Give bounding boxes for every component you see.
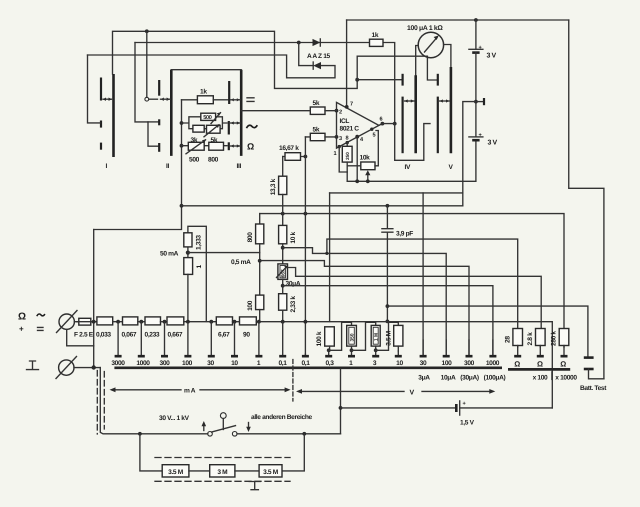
svg-text:2: 2: [339, 110, 342, 116]
switch contact circles: [208, 432, 213, 437]
wire pin4 column: [356, 137, 358, 182]
wire batt-test feed: [387, 306, 588, 356]
wire 5k pin3: [305, 136, 336, 138]
shunt chain column 93.7: [93, 230, 95, 368]
svg-text:Ω: Ω: [18, 312, 26, 323]
button: [220, 413, 226, 419]
resistor 90: [240, 317, 257, 325]
switch V contact bar bottom: [437, 97, 439, 154]
node 387 col top: [386, 204, 390, 208]
svg-text:500: 500: [203, 115, 212, 121]
resistor 3M hv: [210, 465, 235, 477]
svg-text:10 k: 10 k: [290, 231, 297, 243]
resistor 5k non-inverting: [310, 133, 325, 140]
node battery mid: [474, 100, 478, 104]
wire 100 bottom: [259, 310, 261, 322]
wire pin7 column: [346, 20, 348, 106]
bus ohm thick: [508, 368, 570, 371]
battery 1.5V: [455, 404, 458, 412]
wire 1k row left: [182, 99, 198, 101]
wire 250 bottom to rail: [346, 162, 348, 181]
svg-text:280 k: 280 k: [550, 331, 557, 346]
switch II contact bar top: [158, 80, 160, 96]
diode D2 AAZ15: [313, 62, 321, 69]
svg-text:IV: IV: [405, 164, 411, 171]
switch V rotor bar: [450, 67, 453, 153]
resistor 2.33k: [279, 294, 287, 311]
svg-text:0,1: 0,1: [278, 360, 287, 367]
resistor 1ohm: [184, 258, 193, 275]
svg-text:6: 6: [380, 117, 383, 123]
svg-text:30μA: 30μA: [286, 281, 301, 288]
resistor 13.3k: [279, 176, 287, 194]
wire right edge drop: [569, 20, 604, 379]
switch II rotor: [170, 70, 173, 156]
wire 1333 loop: [188, 226, 206, 321]
arrows AC row: [231, 122, 240, 124]
dashed mA-V divider: [292, 360, 294, 402]
node rail wiper: [366, 179, 370, 183]
svg-text:500: 500: [189, 157, 200, 164]
switch I contact 1: [100, 78, 102, 101]
node 0.5mA: [258, 259, 262, 263]
battery 3V lower: [469, 136, 483, 138]
wire bus3 AC path: [88, 55, 336, 78]
svg-text:A A Z 15: A A Z 15: [307, 53, 331, 60]
wire 10k right to pin5: [375, 131, 378, 166]
switch I contact 3: [100, 143, 102, 150]
wire column 181.5: [94, 100, 182, 230]
wire bus2 diode row: [135, 43, 395, 124]
label ~: [247, 125, 258, 128]
pot 500 AC: [201, 113, 216, 120]
node diode junction: [297, 41, 301, 45]
resistor 280k: [559, 329, 569, 346]
svg-text:3: 3: [339, 136, 342, 142]
wire 0.5mA jog to 2.8k: [260, 261, 469, 355]
node rail 13k3: [281, 212, 285, 216]
AC trim network wires: [182, 117, 228, 129]
pin 3: [335, 135, 339, 139]
meter 100uA 1kOhm: [418, 32, 443, 57]
svg-text:16,67 k: 16,67 k: [279, 145, 299, 152]
wire output U-loop: [379, 124, 430, 161]
wire 16k67 row: [283, 156, 306, 158]
switch V mid contact: [476, 101, 483, 103]
dashed box hv chain: [155, 458, 290, 482]
wire 50mA row: [188, 252, 260, 254]
svg-text:50 mA: 50 mA: [160, 251, 179, 258]
svg-text:7: 7: [350, 102, 353, 108]
rail V-: [347, 141, 476, 182]
wire col 305 top: [304, 137, 306, 355]
svg-text:800: 800: [247, 232, 254, 243]
svg-text:3.5 M: 3.5 M: [385, 330, 392, 346]
svg-text:3000: 3000: [111, 360, 125, 367]
resistor 3k AC: [193, 125, 204, 132]
svg-text:100 μA 1 kΩ: 100 μA 1 kΩ: [407, 25, 443, 32]
switch II wiper arrows: [161, 98, 171, 101]
svg-text:100 k: 100 k: [316, 331, 323, 346]
svg-text:8021 C: 8021 C: [340, 126, 360, 133]
capacitor 3.9pF: [382, 229, 393, 233]
pin 6: [381, 122, 385, 126]
svg-text:300: 300: [464, 360, 475, 367]
node 30uA: [281, 284, 285, 288]
resistor 0.667: [167, 317, 184, 325]
svg-text:13,3 k: 13,3 k: [270, 178, 277, 195]
svg-text:100: 100: [182, 360, 193, 367]
svg-text:III: III: [237, 163, 242, 170]
resistor 10k vertical: [279, 225, 287, 243]
wire 13k3 bottom: [282, 195, 284, 226]
ground jack: [59, 360, 74, 375]
svg-text:Batt. Test: Batt. Test: [580, 385, 607, 392]
wire down to HV switch: [100, 368, 140, 434]
wire 30uA row to cap1000: [283, 286, 493, 355]
svg-text:5k: 5k: [313, 127, 320, 134]
svg-text:3μA: 3μA: [418, 375, 430, 382]
fuse F2.5E: [74, 321, 78, 323]
svg-text:Ω: Ω: [247, 142, 254, 152]
svg-text:Ω: Ω: [537, 360, 543, 369]
node 50mA: [186, 251, 190, 255]
wire 5k pin2: [241, 110, 336, 112]
svg-text:10μA: 10μA: [441, 375, 456, 382]
svg-text:100: 100: [442, 360, 453, 367]
resistor 100 vertical: [256, 295, 264, 310]
contact bar DC row: [228, 81, 230, 104]
svg-text:2,33 k: 2,33 k: [290, 296, 297, 313]
wire feedback node: [355, 78, 359, 82]
wire 10k left: [347, 165, 361, 167]
svg-text:1k: 1k: [372, 32, 379, 39]
pin 8: [346, 141, 349, 144]
bus labels mA: [111, 360, 566, 369]
wire uA30 column: [422, 193, 424, 355]
resistor 16.67k: [285, 153, 301, 161]
node mA feed: [180, 204, 184, 208]
svg-text:0,5 mA: 0,5 mA: [231, 259, 251, 266]
resistor 1.333: [184, 233, 192, 247]
svg-text:alle anderen Bereiche: alle anderen Bereiche: [251, 414, 313, 421]
svg-text:x 100: x 100: [533, 375, 548, 382]
wire rail 264.5 to cap300: [288, 268, 542, 329]
svg-text:1,5 V: 1,5 V: [460, 420, 475, 427]
opamp ICL8021C: [337, 102, 379, 148]
switch I wiper arrows: [103, 98, 112, 100]
node AC row: [180, 121, 184, 125]
node 16k67 right: [304, 155, 308, 159]
svg-text:8: 8: [346, 136, 349, 142]
wire rail 213.6: [260, 214, 564, 329]
resistor 0.067: [123, 317, 138, 325]
pin 5: [370, 128, 373, 131]
wire rail 239.1 to 28: [327, 239, 518, 328]
svg-text:10: 10: [396, 360, 403, 367]
switch I rotor: [112, 74, 115, 157]
svg-text:350: 350: [349, 333, 355, 341]
svg-text:V: V: [410, 390, 415, 397]
svg-text:1000: 1000: [486, 360, 500, 367]
resistor 3.5M: [394, 325, 403, 346]
trimmer 10k: [361, 162, 375, 170]
svg-text:10k: 10k: [360, 155, 371, 162]
wire bus drop to battery row: [340, 369, 342, 434]
wire battery column top: [475, 20, 477, 49]
svg-text:10: 10: [231, 360, 238, 367]
resistor 28: [513, 329, 523, 346]
svg-text:3 V: 3 V: [487, 53, 497, 60]
svg-text:(100μA): (100μA): [484, 375, 506, 382]
node w-a: [281, 246, 285, 250]
resistor 1M: [371, 325, 380, 346]
wire HV row right: [237, 433, 341, 435]
svg-text:2.8 k: 2.8 k: [527, 332, 534, 346]
wire 10k bottom: [282, 244, 284, 264]
svg-text:m A: m A: [184, 388, 196, 395]
switch III rotor: [240, 70, 243, 156]
wire 387 column lower: [386, 232, 388, 321]
svg-text:250: 250: [345, 152, 350, 160]
svg-text:0,3: 0,3: [325, 360, 334, 367]
svg-text:0,033: 0,033: [96, 332, 111, 339]
svg-text:1 M: 1 M: [374, 333, 380, 341]
wire battery mid: [475, 53, 477, 137]
svg-text:30 V... 1 kV: 30 V... 1 kV: [159, 415, 190, 422]
svg-text:30: 30: [207, 360, 214, 367]
switch IV contact bar 1 top: [402, 74, 404, 86]
bus terminal caps mA: [115, 322, 309, 356]
resistor 6.67: [216, 317, 232, 325]
dashed shield left: [97, 371, 104, 435]
wire 800 col top: [259, 214, 261, 224]
switch II circle contact: [145, 97, 149, 101]
mA span arrow: [112, 389, 288, 391]
wire feedback to switch IV contact: [357, 79, 402, 81]
batt test terminal: [584, 356, 594, 359]
svg-text:1,333: 1,333: [195, 235, 202, 250]
node fuse out: [92, 320, 96, 324]
resistor 800 ohm-row: [209, 142, 224, 150]
node bus1 branch: [145, 29, 149, 33]
resistor 0.033: [97, 317, 113, 325]
trimmer 350: [347, 325, 357, 346]
svg-text:Ω: Ω: [514, 360, 520, 369]
switch IV rotor bar: [414, 75, 417, 153]
wire mid rail 205.8: [182, 205, 463, 207]
svg-text:100: 100: [247, 300, 254, 311]
wire rotor II-III link: [171, 69, 241, 71]
wire meter right lead: [444, 45, 451, 68]
wire 800 to 100: [259, 244, 261, 295]
wire jack2 to junction: [74, 367, 100, 369]
wire output node: [393, 122, 397, 126]
wire to contact 2: [88, 55, 101, 123]
svg-text:F 2.5 E: F 2.5 E: [74, 332, 94, 339]
svg-text:3 M: 3 M: [217, 469, 228, 476]
svg-text:1000: 1000: [136, 360, 150, 367]
resistor 3.5M hv1: [162, 465, 189, 477]
resistor 100k: [325, 327, 335, 346]
pot 500 ohm: [188, 142, 204, 150]
wire top rail: [347, 19, 569, 21]
diode D1 AAZ15: [313, 39, 321, 46]
svg-text:5: 5: [373, 133, 376, 139]
ground symbol hv: [249, 482, 260, 490]
pin 1: [338, 145, 341, 148]
switch IV wiper arrows: [405, 100, 415, 102]
resistor 1k switch III: [197, 96, 213, 104]
wire 13k3 top: [282, 157, 284, 177]
svg-text:6,67: 6,67: [218, 332, 230, 339]
wire 1ohm bottom: [187, 274, 189, 321]
svg-text:(30μA): (30μA): [460, 375, 479, 382]
svg-text:1k: 1k: [200, 89, 207, 96]
contact bar AC row: [228, 121, 230, 135]
wire circle contact column: [146, 31, 148, 97]
wire battery 1.5V row: [341, 407, 457, 409]
resistor 3.5M hv2: [259, 465, 282, 477]
contact bar ohm row: [228, 142, 230, 150]
V span arrow: [299, 390, 493, 392]
svg-text:1: 1: [334, 151, 337, 157]
resistor 5k inverting: [310, 107, 325, 114]
resistor 1k feedback: [370, 39, 384, 46]
arrow up: [203, 424, 205, 431]
battery 3V upper: [469, 48, 483, 50]
node battery-top: [474, 18, 478, 22]
node 387 306: [386, 304, 390, 308]
wire 50mA jog to cap100: [283, 248, 447, 355]
wire 387 column upper: [386, 206, 388, 228]
wire diode2 link: [299, 43, 313, 66]
10k wiper arrow: [367, 173, 369, 182]
pot 5k AC: [207, 125, 221, 133]
svg-text:28: 28: [504, 336, 511, 343]
bus terminal caps uA: [325, 340, 567, 356]
wire 667 bottom: [282, 279, 284, 293]
wire jack1 loop: [67, 329, 94, 345]
pin 7: [345, 105, 349, 109]
arrows DC row: [231, 98, 240, 101]
svg-text:x 10000: x 10000: [555, 375, 577, 382]
svg-text:0,1: 0,1: [301, 360, 310, 367]
wire 2.33k bottom: [282, 310, 284, 321]
label earth: [27, 361, 39, 370]
resistor 2.8k: [536, 329, 546, 346]
switch II contact mid: [158, 119, 160, 125]
svg-text:0,067: 0,067: [122, 332, 137, 339]
svg-text:90: 90: [243, 332, 250, 339]
wire meter-left feed: [357, 56, 438, 80]
resistor 800 vertical: [256, 224, 264, 244]
arrow down: [248, 423, 250, 430]
label =: [247, 98, 254, 102]
switch V wiper arrows: [440, 100, 450, 102]
svg-text:0,233: 0,233: [145, 332, 160, 339]
switch IV contact bar 1 bottom: [402, 97, 404, 154]
svg-text:3,9 pF: 3,9 pF: [396, 231, 413, 238]
node rail pin4: [355, 179, 359, 183]
node 387 321: [386, 320, 390, 324]
switch V contact bar top: [437, 74, 439, 86]
main resistor row wire: [91, 321, 97, 323]
arrows ohm row: [231, 145, 240, 147]
wire mid rail 192.9: [330, 192, 463, 194]
pin 4: [355, 135, 359, 139]
svg-text:Ω: Ω: [560, 360, 566, 369]
svg-text:3.5 M: 3.5 M: [168, 469, 184, 476]
resistor 0.233: [145, 317, 161, 325]
wire 3.5M chain drop left: [140, 434, 162, 471]
wire 100k column: [329, 193, 331, 322]
svg-text:3.5 M: 3.5 M: [263, 469, 279, 476]
wire HV row left: [140, 433, 208, 435]
svg-text:300: 300: [160, 360, 171, 367]
node ohm row: [180, 144, 184, 148]
svg-text:ICL: ICL: [340, 118, 350, 125]
svg-text:30: 30: [420, 360, 427, 367]
switch II contact low: [158, 143, 160, 152]
node rail 305: [304, 212, 308, 216]
wire 3.5M chain drop right: [282, 434, 304, 471]
svg-text:3 V: 3 V: [488, 140, 498, 147]
trimmer 250: [342, 146, 352, 162]
wire switch II contacts feed: [135, 43, 158, 147]
bus mA thick: [114, 366, 502, 369]
trimmer 667: [278, 264, 288, 280]
svg-text:5k: 5k: [313, 100, 320, 107]
wire 1k row right: [213, 99, 228, 101]
wire zero rail from battery mid: [463, 102, 476, 206]
wire bus1 from switch I to opamp: [113, 31, 358, 88]
wire meter left lead: [416, 46, 419, 76]
jack input: [59, 314, 74, 329]
pin 2: [335, 109, 339, 113]
ohm trim row wires: [182, 145, 228, 147]
svg-text:800: 800: [208, 157, 219, 164]
switch I contact 2: [100, 121, 102, 128]
svg-text:0,667: 0,667: [168, 332, 183, 339]
svg-text:II: II: [166, 163, 169, 170]
svg-text:+: +: [19, 325, 24, 334]
switch arm: [212, 426, 236, 432]
